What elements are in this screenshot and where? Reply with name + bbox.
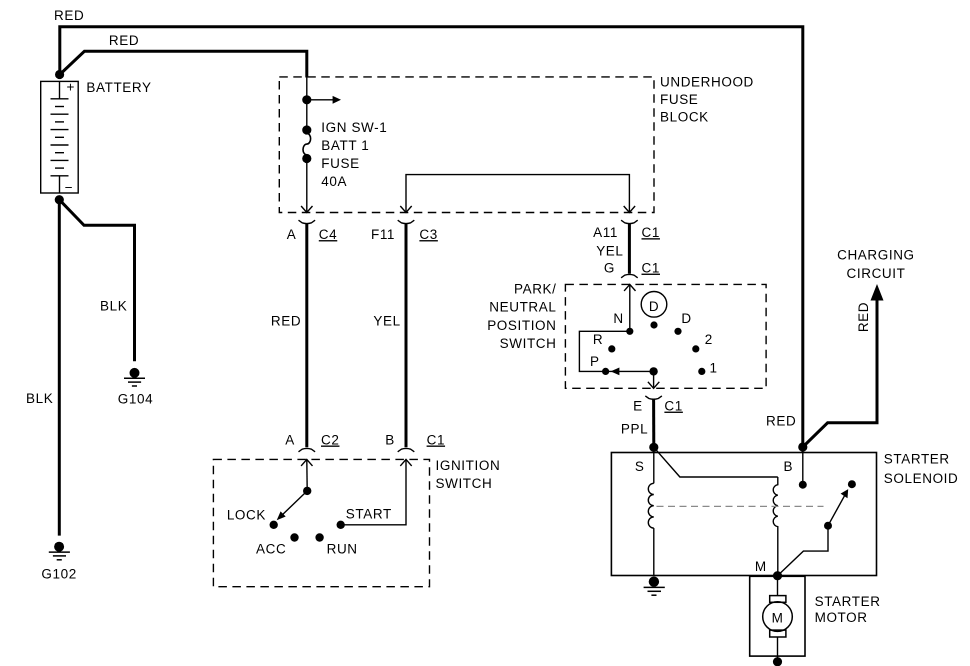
svg-text:B: B xyxy=(385,433,395,448)
node starter motor ground xyxy=(773,657,782,666)
wire BLK battery negative to G102 xyxy=(58,200,61,536)
wiper arm toward LOCK xyxy=(277,491,308,520)
svg-text:A11: A11 xyxy=(593,225,618,240)
svg-text:YEL: YEL xyxy=(596,244,623,259)
svg-text:STARTER: STARTER xyxy=(815,594,881,609)
svg-text:RED: RED xyxy=(856,302,871,332)
contact N xyxy=(626,328,633,335)
svg-text:P: P xyxy=(590,354,600,369)
contact D xyxy=(674,328,681,335)
label fuse value xyxy=(321,120,387,189)
svg-text:RED: RED xyxy=(109,33,139,48)
contact P xyxy=(602,368,609,375)
wire fuse block feed xyxy=(306,78,308,131)
svg-text:BLK: BLK xyxy=(26,391,53,406)
ground G102 xyxy=(49,542,70,560)
svg-text:START: START xyxy=(346,506,392,521)
svg-text:BLOCK: BLOCK xyxy=(660,109,709,124)
svg-text:C1: C1 xyxy=(642,225,660,240)
contact fixed upper right xyxy=(848,480,856,488)
svg-text:+: + xyxy=(67,80,75,95)
label STARTER MOTOR xyxy=(815,594,881,625)
svg-text:RED: RED xyxy=(54,8,84,23)
svg-text:RED: RED xyxy=(766,414,796,429)
wire S to hold-in coil xyxy=(654,447,778,477)
wire B to fixed contact xyxy=(802,447,804,485)
wire BLK battery negative to G104 xyxy=(59,200,134,362)
label CHARGING CIRCUIT xyxy=(837,247,915,281)
svg-text:G104: G104 xyxy=(118,391,153,406)
svg-text:BATTERY: BATTERY xyxy=(86,80,151,95)
position indicator circle D xyxy=(641,292,667,318)
svg-text:D: D xyxy=(681,311,691,326)
pin label A11 C1 xyxy=(593,225,660,240)
svg-text:G: G xyxy=(604,261,615,276)
node solenoid terminal M xyxy=(773,571,782,580)
svg-text:NEUTRAL: NEUTRAL xyxy=(489,300,556,315)
svg-text:C2: C2 xyxy=(321,433,339,448)
svg-text:B: B xyxy=(783,459,793,474)
wire YEL C3 to ignition switch B xyxy=(405,224,408,447)
park neutral position switch box xyxy=(565,284,766,388)
connector C4 pin A xyxy=(299,220,316,223)
moving contact arrow xyxy=(828,489,848,526)
node battery negative xyxy=(55,195,64,204)
connector C1 pin A11 xyxy=(621,220,638,223)
contact fixed B xyxy=(799,481,807,489)
contact top center xyxy=(650,321,657,328)
wire fuse to connector C4 pin A xyxy=(301,163,312,213)
wire ignition common pin A xyxy=(301,459,312,491)
pull-in coil left xyxy=(648,447,654,575)
contact ACC xyxy=(290,533,298,541)
plunger linkage dashed xyxy=(657,505,824,507)
svg-text:YEL: YEL xyxy=(373,313,400,328)
connector C1 pin E xyxy=(645,396,662,399)
wire junction to pin E xyxy=(648,371,659,388)
label PARK/NEUTRAL POSITION SWITCH xyxy=(487,282,556,351)
svg-text:C1: C1 xyxy=(642,261,660,276)
svg-text:2: 2 xyxy=(705,332,713,347)
node battery positive xyxy=(55,70,64,79)
starter motor M xyxy=(763,576,793,662)
wire RED solenoid B to charging circuit xyxy=(803,298,877,447)
node moving contact pivot xyxy=(824,522,832,530)
svg-text:R: R xyxy=(593,332,603,347)
svg-text:S: S xyxy=(635,459,645,474)
starter motor box xyxy=(750,576,805,656)
node solenoid terminal B xyxy=(798,442,807,451)
contact START xyxy=(337,521,345,529)
svg-text:C4: C4 xyxy=(319,227,337,242)
pin label F11 C3 xyxy=(371,227,438,242)
svg-text:STARTER: STARTER xyxy=(884,452,950,467)
node solenoid terminal S xyxy=(649,443,658,452)
svg-text:PPL: PPL xyxy=(621,422,648,437)
wire RED battery positive to starter solenoid B xyxy=(60,27,803,445)
underhood fuse block box xyxy=(279,77,654,213)
node ignition wiper pivot xyxy=(303,487,311,495)
node fuse feed junction xyxy=(302,95,311,104)
svg-text:MOTOR: MOTOR xyxy=(815,610,868,625)
wiper wire P to pin E with arrow xyxy=(606,368,654,376)
arrow to charging circuit xyxy=(871,284,884,301)
svg-text:RED: RED xyxy=(271,313,301,328)
pin label A C4 xyxy=(287,227,338,242)
hold-in coil right xyxy=(773,477,778,576)
label UNDERHOOD FUSE BLOCK xyxy=(660,74,754,124)
svg-text:SOLENOID: SOLENOID xyxy=(884,471,959,486)
svg-text:SWITCH: SWITCH xyxy=(500,336,557,351)
connector C1 pin G xyxy=(621,274,638,277)
connector C3 pin F11 xyxy=(398,220,415,223)
svg-text:CHARGING: CHARGING xyxy=(837,247,915,262)
moving contact arm from M xyxy=(778,526,829,576)
svg-text:PARK/: PARK/ xyxy=(514,282,557,297)
svg-text:FUSE: FUSE xyxy=(660,92,698,107)
wire START to pin B xyxy=(341,459,412,524)
svg-text:C1: C1 xyxy=(664,399,682,414)
svg-text:F11: F11 xyxy=(371,227,395,242)
svg-text:G102: G102 xyxy=(41,567,76,582)
contact 1 xyxy=(698,368,705,375)
wire YEL C1 to park neutral switch G xyxy=(628,224,631,274)
svg-text:−: − xyxy=(65,180,73,195)
contact 2 xyxy=(692,345,699,352)
wire PPL park switch E to solenoid S xyxy=(652,400,655,448)
wire park switch pin G to contact N xyxy=(624,284,635,331)
connector C1 pin B ignition switch xyxy=(398,448,415,451)
svg-text:N: N xyxy=(613,311,623,326)
contact LOCK xyxy=(270,521,278,529)
svg-text:D: D xyxy=(649,299,659,314)
wire N to P bracket xyxy=(579,331,629,371)
svg-text:SWITCH: SWITCH xyxy=(436,476,493,491)
arrow feed to other circuits xyxy=(307,96,341,104)
pin label G C1 xyxy=(604,261,660,276)
svg-text:E: E xyxy=(633,399,643,414)
svg-text:BATT 1: BATT 1 xyxy=(321,138,369,153)
connector C2 pin A ignition switch xyxy=(299,448,316,451)
svg-text:BLK: BLK xyxy=(100,299,127,314)
svg-text:M: M xyxy=(755,559,767,574)
svg-text:IGNITION: IGNITION xyxy=(436,458,501,473)
contact R xyxy=(608,345,615,352)
svg-text:LOCK: LOCK xyxy=(227,507,266,522)
battery xyxy=(41,81,78,193)
ignition switch box xyxy=(213,459,429,586)
svg-text:C3: C3 xyxy=(419,227,437,242)
svg-text:40A: 40A xyxy=(321,174,347,189)
fuse IGN SW-1 BATT 1 40A xyxy=(302,125,311,163)
svg-text:A: A xyxy=(285,433,295,448)
ground G104 xyxy=(124,368,145,386)
wire RED battery positive to underhood fuse block xyxy=(60,51,307,77)
contact RUN xyxy=(315,533,323,541)
svg-text:C1: C1 xyxy=(427,433,445,448)
wire RED C4 to ignition switch A xyxy=(305,224,308,447)
svg-text:A: A xyxy=(287,227,297,242)
label IGNITION SWITCH xyxy=(436,458,501,491)
pin label E C1 xyxy=(633,399,683,414)
svg-text:ACC: ACC xyxy=(256,542,286,557)
node park wiper junction xyxy=(649,367,657,375)
wire link C3 F11 to C1 A11 inside fuse block xyxy=(400,175,635,213)
label STARTER SOLENOID xyxy=(884,452,959,487)
svg-text:1: 1 xyxy=(709,360,717,375)
starter solenoid box xyxy=(611,453,876,576)
svg-text:UNDERHOOD: UNDERHOOD xyxy=(660,74,754,89)
svg-text:FUSE: FUSE xyxy=(321,156,359,171)
svg-text:M: M xyxy=(772,611,784,626)
svg-text:CIRCUIT: CIRCUIT xyxy=(847,266,906,281)
pin label B C1 xyxy=(385,433,445,448)
svg-text:POSITION: POSITION xyxy=(487,318,556,333)
pin label A C2 xyxy=(285,433,339,448)
svg-text:IGN SW-1: IGN SW-1 xyxy=(321,120,387,135)
svg-text:RUN: RUN xyxy=(327,542,358,557)
ground starter solenoid xyxy=(644,577,665,596)
